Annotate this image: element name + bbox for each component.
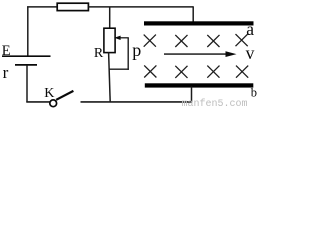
field cross row2 col2 <box>175 66 187 78</box>
wire bottom-left horizontal <box>26 101 49 103</box>
field cross row1 col2 <box>175 35 187 47</box>
switch K contact circle <box>50 100 57 107</box>
plate a (top deflection plate) <box>144 21 254 25</box>
field cross row1 col1 <box>144 35 156 47</box>
svg-text:b: b <box>251 86 257 100</box>
wire rheostat top lead <box>109 7 111 29</box>
field cross row1 col4 <box>236 34 248 46</box>
svg-text:a: a <box>246 19 254 39</box>
wire battery negative lead vertical <box>26 66 28 103</box>
svg-text:v: v <box>246 43 255 63</box>
wire top middle horizontal <box>88 6 193 8</box>
velocity arrow v <box>164 51 237 57</box>
battery E short plate <box>15 64 37 66</box>
wire bottom middle horizontal <box>81 101 193 103</box>
field cross row2 col3 <box>207 66 219 78</box>
svg-text:K: K <box>44 86 54 101</box>
plate b (bottom deflection plate) <box>145 83 254 87</box>
switch K blade (open) <box>56 91 73 100</box>
resistor R1 (fixed resistor, top) <box>57 3 88 10</box>
wire plate b bottom lead <box>191 87 193 103</box>
wire top-right vertical (to plate a) <box>192 6 194 22</box>
battery E long plate <box>2 55 51 57</box>
svg-text:R: R <box>94 46 104 61</box>
field cross row2 col1 <box>144 65 156 77</box>
svg-text:manfen5.com: manfen5.com <box>182 98 248 108</box>
rheostat R box <box>104 28 115 52</box>
field cross row1 col3 <box>207 35 219 47</box>
svg-text:p: p <box>132 40 141 60</box>
field cross row2 col4 <box>236 66 248 78</box>
wire wiper-to-lead horizontal <box>109 68 129 70</box>
wire top-left horizontal <box>27 6 58 8</box>
svg-text:r: r <box>3 63 9 82</box>
wire wiper vertical <box>127 38 129 70</box>
rheostat wiper arrow (points left into box) <box>114 36 129 40</box>
wire rheostat bottom lead <box>109 52 111 102</box>
wire left vertical (battery positive lead) <box>27 6 29 56</box>
